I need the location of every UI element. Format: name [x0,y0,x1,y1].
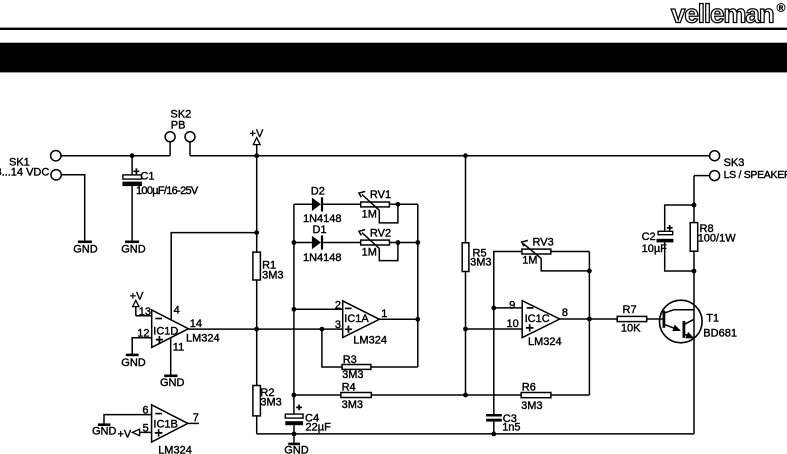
svg-text:GND: GND [284,444,309,454]
wire C3 bottom [493,422,495,434]
svg-text:GND: GND [121,243,146,255]
header thin rule [0,28,787,30]
svg-text:1: 1 [381,308,387,320]
node R8/C2 top [692,203,697,208]
svg-text:RV2: RV2 [370,228,391,240]
svg-text:2: 2 [335,299,341,311]
svg-text:8: 8 [562,307,568,319]
svg-text:R: R [779,6,784,12]
node IC1A pin3 tee [320,327,325,332]
svg-text:22µF: 22µF [306,422,332,434]
transistor T1 [660,300,737,343]
ground (IC1D pin11) [160,376,185,389]
wire IC1D pin12 to ground [132,338,152,354]
wire R3 right feedback [371,366,418,368]
op-amp IC1B [142,404,198,454]
svg-text:GND: GND [160,377,185,389]
svg-text:3M3: 3M3 [342,369,363,381]
svg-text:12: 12 [137,328,149,340]
svg-text:11: 11 [173,342,184,354]
wire SK2 to SK3 [190,155,710,157]
wire IC1B output [188,422,199,424]
node R4/R5/R6 [463,393,468,398]
node IC1C output [587,317,592,322]
svg-text:R7: R7 [623,304,637,316]
node RV3 wiper [587,269,592,274]
resistor R7 [617,304,647,334]
wire RV1 right [389,203,417,205]
diode D1 [303,224,342,264]
wire IC1C pin10 [466,328,523,330]
svg-text:LM324: LM324 [353,334,387,346]
svg-text:RV3: RV3 [533,236,554,248]
wire SK1 top to SK2 [61,155,170,157]
diode D2 [303,185,342,225]
svg-text:R3: R3 [343,354,357,366]
wire pin4 supply branch [171,233,257,320]
resistor R5 [462,243,491,272]
trimmer RV1 [359,189,391,220]
svg-text:+V: +V [130,291,144,303]
wire SK1 bottom branch [61,175,84,241]
svg-text:10K: 10K [621,322,641,334]
svg-text:LS / SPEAKER: LS / SPEAKER [724,169,787,181]
wire bottom ground rail [257,433,694,435]
svg-text:R4: R4 [342,381,356,393]
wire SK2 left stub [169,142,171,156]
wire IC1A pin2 [294,308,343,310]
ground (SK1) [73,242,98,256]
resistor R8 [690,223,736,252]
node RV1 wiper [396,202,401,207]
node C1 tap [130,153,135,158]
svg-text:D1: D1 [313,224,327,236]
resistor R1 [253,252,284,281]
svg-text:1M: 1M [522,254,537,266]
wire IC1D output / IC1A pin3 row [188,328,342,330]
wire C4 bottom [293,425,295,434]
node R5 top rail [463,153,468,158]
resistor R6 [521,382,551,413]
svg-text:T1: T1 [706,312,719,324]
svg-text:R6: R6 [522,382,536,394]
svg-text:13: 13 [139,306,151,318]
node R8/C2 bottom [692,269,697,274]
svg-text:IC1D: IC1D [153,325,178,337]
wire C2 top branch [665,205,694,231]
node IC1C pin10 tee [463,327,468,332]
node +V rail [254,153,259,158]
svg-text:8...14 VDC: 8...14 VDC [0,166,49,178]
node IC1A output [415,317,420,322]
svg-text:SK3: SK3 [724,157,745,169]
op-amp IC1C [507,300,568,348]
svg-text:IC1B: IC1B [153,419,177,431]
wire +V rail vertical (R1/R2 column) [256,156,258,252]
svg-text:3M3: 3M3 [342,399,363,411]
svg-text:4: 4 [174,305,180,317]
svg-text:3M3: 3M3 [260,396,281,408]
svg-text:D2: D2 [311,185,325,197]
velleman logo [671,0,785,29]
svg-text:1M: 1M [362,208,377,220]
capacitor C3 [486,413,520,434]
wire IC1B pin6 to ground [104,415,152,424]
wire C1 top [131,156,133,175]
node IC1C pin9 tee [491,306,496,311]
svg-text:3M3: 3M3 [470,257,491,269]
svg-text:100/1W: 100/1W [698,233,737,245]
wire RV3 right [551,251,590,253]
power +V symbol (top) [250,128,264,156]
svg-text:3M3: 3M3 [521,400,542,412]
svg-text:GND: GND [92,426,117,438]
wire RV3 wiper loop [541,258,589,271]
connector SK1 [0,151,61,181]
wire SK2 right stub [189,142,191,156]
op-amp IC1D [137,305,219,354]
wire RV2 right [389,242,417,244]
node D1 row [292,240,297,245]
svg-text:LM324: LM324 [186,332,220,344]
svg-text:GND: GND [121,357,146,369]
wire D2 anode [294,203,312,205]
svg-text:RV1: RV1 [370,189,391,201]
wire IC1C pin9 [494,307,522,309]
svg-text:9: 9 [509,300,515,312]
wire D1 to RV2 [323,242,361,244]
resistor R4 [341,381,371,411]
wire R2 to bottom rail [256,416,258,434]
svg-text:PB: PB [171,120,186,132]
node bottom rail / C3 [491,432,496,437]
svg-text:10: 10 [507,318,519,330]
svg-text:LM324: LM324 [528,336,562,348]
power +V symbol (IC1B pin5) [118,429,152,441]
svg-text:LM324: LM324 [158,444,192,454]
node pin4 branch [254,230,259,235]
node RV2 wiper [396,240,401,245]
wire R4/R6 row [294,394,590,396]
svg-text:7: 7 [193,412,199,424]
wire D2 to RV1 [323,203,361,205]
header black bar [0,43,787,73]
wire left ladder vertical [293,204,295,414]
wire IC1C output row [560,318,618,320]
svg-text:velleman: velleman [671,0,774,29]
node IC1D out / divider [254,327,259,332]
svg-text:IC1C: IC1C [525,313,550,325]
wire RV3 left / C3 column [494,252,522,415]
wire IC1A output [379,318,417,320]
node bottom rail / C4 [292,432,297,437]
ground (IC1B pin6) [92,425,117,438]
wire IC1C output column [588,252,590,396]
resistor R3 [342,354,371,381]
capacitor C1 [122,168,199,197]
svg-text:3: 3 [335,319,341,331]
wire R5 column top [465,156,467,243]
trimmer RV3 [522,236,554,266]
svg-text:C1: C1 [140,171,154,183]
svg-text:10µF: 10µF [642,243,668,255]
connector SK3 [710,151,787,181]
capacitor C2 [642,225,674,255]
ground (IC1D pin12) [121,355,146,369]
svg-text:3M3: 3M3 [262,269,283,281]
wire RV2 wiper loop [379,243,398,261]
wire RV1 wiper loop [379,204,398,223]
node right ladder / RV2 row [415,240,420,245]
svg-text:1N4148: 1N4148 [303,252,342,264]
svg-text:C2: C2 [642,231,656,243]
ground (C1) [121,242,146,256]
power +V symbol (IC1D pin13) [130,291,144,316]
wire D1 anode [294,242,312,244]
svg-text:1n5: 1n5 [502,421,520,433]
trimmer RV2 [359,228,391,259]
connector SK2 [165,108,195,141]
wire R7 to base [647,318,664,320]
wire SK3 lower branch [694,175,710,177]
wire collector/emitter column [693,176,695,434]
svg-text:BD681: BD681 [703,327,737,339]
wire right ladder vertical [417,204,419,367]
wire R1 to R2 [256,280,258,386]
svg-text:IC1A: IC1A [344,313,369,325]
wire C1 bottom [131,186,133,241]
wire IC1D pin13 [136,315,152,317]
node pin2 row [292,307,297,312]
node R4 row [292,393,297,398]
resistor R2 [253,386,282,416]
capacitor C4 [285,405,331,434]
svg-text:GND: GND [73,243,98,255]
wire IC1D pin11 to ground [170,338,172,375]
wire R5 column bottom [465,272,467,396]
ground (bottom rail) [284,434,309,454]
svg-text:+V: +V [118,429,132,441]
wire pin3 to R3 [322,329,342,367]
svg-text:SK2: SK2 [170,108,191,120]
svg-text:1M: 1M [362,247,377,259]
svg-text:100µF/16-25V: 100µF/16-25V [136,185,199,197]
wire C2 bottom branch [665,242,694,271]
op-amp IC1A [335,299,387,346]
